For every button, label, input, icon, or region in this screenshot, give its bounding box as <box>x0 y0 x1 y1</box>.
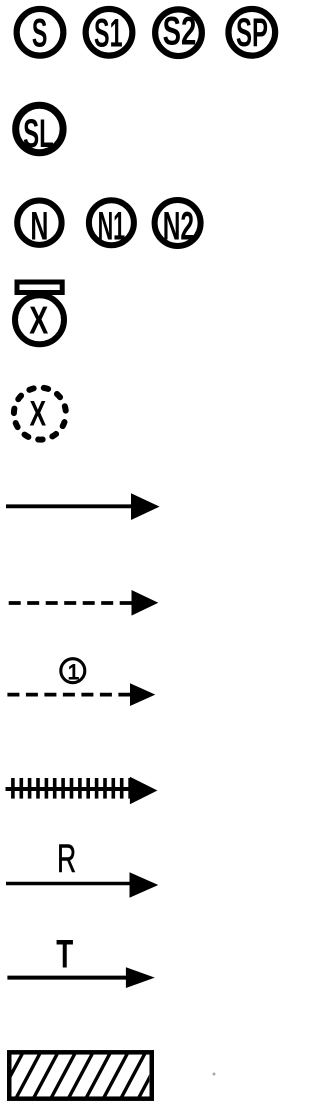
svg-text:N: N <box>30 204 48 248</box>
hatched rectangle <box>0 1052 163 1102</box>
R arrow <box>6 872 158 898</box>
dashed arrow <box>9 590 159 616</box>
svg-text:S: S <box>32 11 48 55</box>
svg-text:N2: N2 <box>163 204 194 248</box>
node S2 <box>155 9 202 56</box>
svg-text:SP: SP <box>236 11 268 55</box>
svg-text:S2: S2 <box>163 10 197 54</box>
capped circle X symbol: cap bar <box>17 282 62 293</box>
dashed arrow with circled 1 <box>7 683 155 706</box>
node N2 <box>155 200 201 248</box>
T label <box>56 933 73 977</box>
node S <box>17 9 64 56</box>
node SL <box>16 105 63 156</box>
node N <box>17 201 61 249</box>
node N1 <box>89 200 134 248</box>
svg-text:R: R <box>57 837 76 881</box>
circled 1 label <box>61 659 85 684</box>
svg-text:1: 1 <box>68 660 80 684</box>
node S1 <box>86 9 133 56</box>
dashed circle X symbol <box>14 388 66 440</box>
svg-text:X: X <box>30 394 47 434</box>
T arrow <box>7 967 154 988</box>
stray scan dot <box>213 1073 216 1076</box>
svg-text:T: T <box>56 933 73 977</box>
capped circle X symbol: circle <box>15 295 64 344</box>
ticked arrow line <box>6 777 158 805</box>
R label <box>57 837 76 881</box>
svg-text:S1: S1 <box>94 12 123 56</box>
svg-text:X: X <box>29 299 48 342</box>
node SP <box>228 9 275 56</box>
svg-text:N1: N1 <box>98 204 126 248</box>
solid arrow <box>6 493 160 520</box>
svg-text:SL: SL <box>23 112 54 156</box>
